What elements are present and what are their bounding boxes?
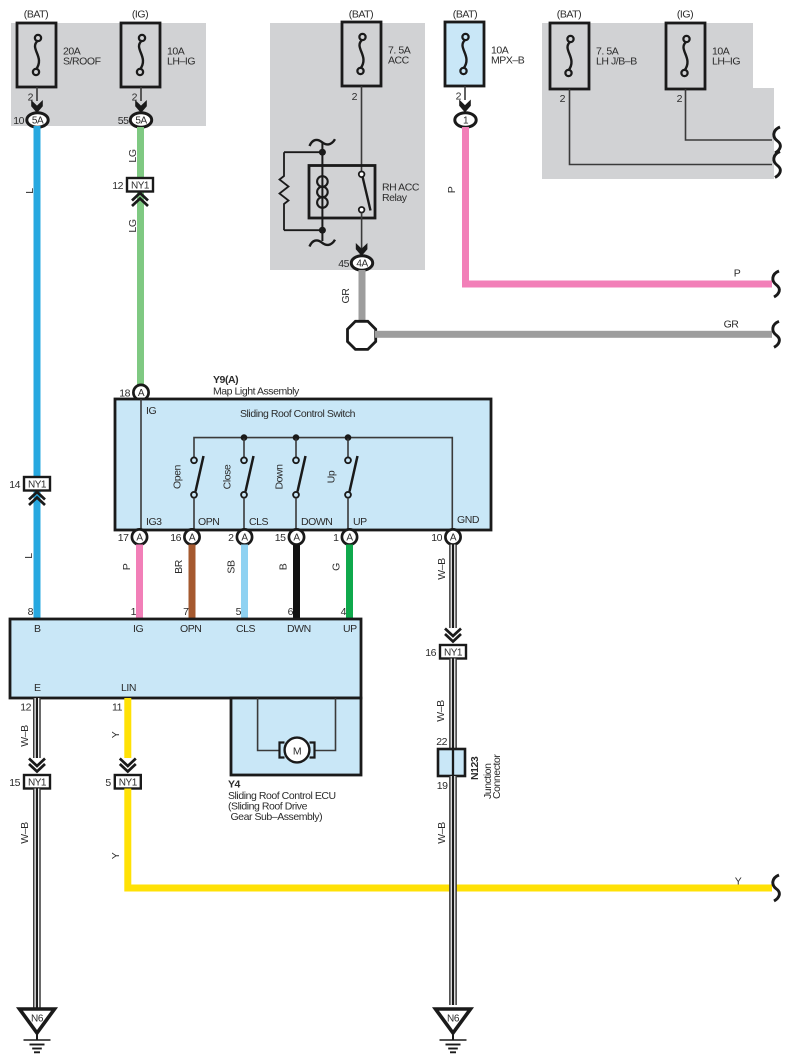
svg-text:55: 55 [118, 115, 129, 127]
svg-text:GR: GR [724, 319, 740, 331]
svg-text:(BAT): (BAT) [24, 9, 48, 21]
component Y9(A) Map Light Assembly title [213, 374, 300, 398]
wire LH J/B-B pin 2 [560, 89, 772, 165]
connector 14 NY1 [9, 477, 50, 505]
svg-text:Map Light Assembly: Map Light Assembly [213, 386, 300, 398]
wire Y yellow upper [110, 698, 131, 758]
svg-text:17: 17 [118, 532, 129, 544]
break P wire [773, 271, 780, 297]
svg-text:8: 8 [28, 606, 34, 618]
svg-text:IG3: IG3 [146, 516, 162, 528]
switch Down [274, 439, 306, 531]
svg-text:LH J/B–B: LH J/B–B [596, 56, 637, 68]
coil branch continuation top [310, 139, 336, 146]
svg-text:2: 2 [352, 91, 358, 103]
wire W-B mid right [435, 659, 457, 750]
svg-text:A: A [346, 533, 353, 544]
svg-text:Up: Up [326, 470, 338, 483]
svg-text:NY1: NY1 [131, 181, 150, 192]
junction dot bus up [345, 434, 352, 441]
connector 15 NY1 [9, 759, 50, 790]
switch Close [222, 439, 254, 531]
pin 10 A [431, 529, 460, 544]
terminal 55 5A [118, 113, 152, 127]
svg-text:DOWN: DOWN [301, 516, 332, 528]
break LH J/B-B wire [774, 152, 781, 178]
svg-text:DWN: DWN [287, 623, 311, 635]
svg-text:E: E [34, 682, 41, 694]
wire SB skyblue pin2 [226, 545, 249, 620]
svg-text:OPN: OPN [180, 623, 201, 635]
svg-text:W–B: W–B [436, 558, 448, 580]
wire coil bottom stub [321, 230, 323, 241]
break LH-IG wire [774, 127, 781, 153]
svg-text:GND: GND [457, 514, 480, 526]
svg-text:Y4: Y4 [228, 779, 241, 791]
svg-text:L: L [24, 188, 36, 194]
pin 16 A [170, 529, 199, 544]
svg-text:Y: Y [110, 852, 122, 859]
component Y9(A) box [115, 399, 491, 530]
svg-text:W–B: W–B [435, 700, 447, 722]
svg-text:Y: Y [110, 731, 122, 738]
svg-text:S/ROOF: S/ROOF [63, 56, 101, 68]
svg-text:15: 15 [9, 777, 20, 789]
svg-text:Y9(A): Y9(A) [213, 374, 238, 386]
junction octagon [348, 321, 376, 349]
ground N6 right [436, 1009, 471, 1052]
svg-text:10: 10 [13, 115, 24, 127]
svg-text:W–B: W–B [19, 725, 31, 747]
svg-text:(IG): (IG) [677, 9, 693, 21]
wire L blue lower [23, 491, 41, 620]
motor M [280, 738, 315, 763]
wire BR brown pin16 [173, 545, 196, 620]
svg-text:6: 6 [288, 606, 294, 618]
svg-text:4: 4 [341, 606, 347, 618]
relay RH ACC box [309, 166, 420, 219]
wire MPX-B pin 2 [456, 86, 471, 113]
wire W-B pin E lower [19, 789, 41, 1010]
svg-text:P: P [446, 186, 458, 193]
svg-text:16: 16 [170, 532, 181, 544]
svg-text:Connector: Connector [491, 754, 503, 799]
svg-text:W–B: W–B [436, 822, 448, 844]
svg-text:LG: LG [127, 219, 139, 232]
fuse 10A MPX-B [445, 9, 525, 87]
svg-text:5A: 5A [32, 116, 44, 127]
pin 1 A [333, 529, 357, 544]
motor circuit loop [258, 698, 336, 751]
svg-text:LIN: LIN [121, 682, 136, 694]
svg-text:16: 16 [425, 647, 436, 659]
relay coil [317, 152, 328, 230]
svg-text:NY1: NY1 [119, 778, 138, 789]
svg-text:(BAT): (BAT) [349, 9, 373, 21]
gray junction block right [542, 23, 774, 179]
svg-text:14: 14 [9, 479, 20, 491]
break GR wire [773, 321, 780, 347]
svg-text:1: 1 [333, 532, 339, 544]
svg-text:N6: N6 [31, 1014, 44, 1025]
svg-text:15: 15 [275, 532, 286, 544]
terminal 10 5A [13, 113, 48, 127]
wire fuse20A pin 2 [28, 87, 43, 113]
svg-text:2: 2 [677, 93, 683, 105]
switch Open [172, 439, 204, 531]
junction dot bus down [293, 434, 300, 441]
svg-text:4A: 4A [356, 259, 368, 270]
svg-text:W–B: W–B [19, 822, 31, 844]
svg-text:Sliding Roof Control Switch: Sliding Roof Control Switch [240, 408, 356, 420]
svg-text:BR: BR [173, 559, 185, 574]
svg-text:IG: IG [146, 405, 156, 417]
svg-text:1: 1 [463, 116, 469, 127]
svg-text:(BAT): (BAT) [557, 9, 581, 21]
svg-text:CLS: CLS [249, 516, 269, 528]
break Y wire [773, 875, 780, 901]
gray junction block left [11, 23, 206, 126]
connector 12 NY1 [112, 178, 153, 206]
pin 2 A [228, 529, 252, 544]
junction connector N123 [437, 749, 503, 799]
connector 16 NY1 [425, 629, 466, 660]
svg-text:GR: GR [340, 288, 352, 304]
svg-text:A: A [189, 533, 196, 544]
svg-text:A: A [138, 388, 145, 399]
svg-text:NY1: NY1 [444, 648, 463, 659]
svg-text:5: 5 [236, 606, 242, 618]
pin 15 A [275, 529, 304, 544]
junction dot bus close [241, 434, 248, 441]
svg-text:G: G [331, 563, 343, 571]
wire LH-IG pin 2 [677, 89, 772, 140]
svg-text:Close: Close [222, 464, 234, 489]
ground N6 left [20, 1009, 55, 1052]
svg-text:19: 19 [437, 780, 448, 792]
switch bus wire [194, 438, 452, 530]
wire W-B pin10 upper [436, 545, 457, 629]
svg-text:12: 12 [20, 702, 31, 714]
pin 18 A [119, 385, 148, 400]
svg-text:7: 7 [183, 606, 189, 618]
svg-text:Gear Sub–Assembly): Gear Sub–Assembly) [228, 811, 322, 823]
svg-text:2: 2 [560, 93, 566, 105]
svg-text:5A: 5A [135, 116, 147, 127]
wire GR gray horizontal [375, 319, 772, 338]
svg-text:NY1: NY1 [28, 778, 47, 789]
wire B black pin15 [278, 545, 301, 620]
wire P pink pin17 [121, 545, 143, 620]
svg-text:Relay: Relay [382, 192, 408, 204]
junction dot top coil [319, 149, 326, 156]
coil branch continuation bottom [310, 240, 336, 247]
wire LG green lower [127, 192, 144, 387]
svg-text:B: B [34, 623, 41, 635]
svg-text:1: 1 [131, 606, 137, 618]
wire Y yellow lower [110, 789, 772, 889]
wire fuse10A pin 2 [132, 87, 147, 113]
svg-text:45: 45 [338, 258, 349, 270]
svg-text:A: A [450, 533, 457, 544]
fuse 20A S/ROOF [17, 9, 101, 88]
wire LG green upper [127, 127, 144, 178]
fuse 10A LH-IG right [666, 9, 740, 90]
svg-text:5: 5 [105, 777, 111, 789]
fuse 7.5A ACC [342, 9, 411, 87]
wire ACC fuse to relay [352, 86, 362, 172]
wire GR gray vertical [340, 270, 366, 321]
switch box bottom labels [198, 514, 480, 528]
connector 5 NY1 [105, 759, 140, 790]
svg-text:11: 11 [112, 702, 123, 714]
fuse 10A LH-IG left [121, 9, 195, 88]
svg-text:UP: UP [343, 623, 357, 635]
svg-text:P: P [121, 563, 133, 570]
svg-text:N123: N123 [469, 756, 481, 780]
svg-text:2: 2 [456, 91, 462, 103]
fuse 7.5A LH J/B-B [550, 9, 637, 90]
component Y4 title [228, 779, 336, 824]
svg-text:Open: Open [172, 464, 184, 488]
svg-text:N6: N6 [447, 1014, 460, 1025]
svg-text:SB: SB [226, 560, 238, 574]
svg-text:P: P [734, 268, 741, 280]
svg-text:2: 2 [228, 532, 234, 544]
svg-text:(BAT): (BAT) [453, 9, 477, 21]
relay switch [359, 172, 371, 251]
svg-text:ACC: ACC [388, 55, 410, 67]
svg-text:12: 12 [112, 180, 123, 192]
wire W-B pin E upper [19, 698, 41, 758]
svg-text:MPX–B: MPX–B [491, 55, 525, 67]
svg-text:A: A [241, 533, 248, 544]
wire IG internal [141, 399, 162, 530]
junction dot bottom coil [319, 227, 326, 234]
svg-text:LH–IG: LH–IG [167, 56, 195, 68]
svg-text:NY1: NY1 [28, 480, 47, 491]
svg-text:Down: Down [274, 464, 286, 490]
terminal 45 4A [338, 243, 372, 270]
pin 17 A [118, 529, 147, 544]
svg-text:A: A [136, 533, 143, 544]
ECU top labels [34, 623, 357, 635]
svg-text:IG: IG [133, 623, 143, 635]
svg-text:(IG): (IG) [132, 9, 148, 21]
svg-text:LH–IG: LH–IG [712, 56, 740, 68]
svg-text:L: L [23, 553, 35, 559]
svg-text:Y: Y [735, 876, 742, 888]
gray junction block middle [270, 23, 425, 270]
wire G green pin1 [331, 545, 354, 620]
relay coil resistor [280, 152, 323, 230]
ECU bottom labels [34, 682, 136, 694]
wire coil top stub [321, 143, 323, 152]
svg-text:B: B [278, 563, 290, 570]
component ECU box L-shape [10, 619, 361, 775]
svg-text:10: 10 [431, 532, 442, 544]
svg-text:CLS: CLS [236, 623, 256, 635]
svg-text:22: 22 [436, 736, 447, 748]
switch Up [326, 439, 358, 531]
wire P pink [446, 127, 772, 284]
svg-text:OPN: OPN [198, 516, 219, 528]
svg-text:M: M [293, 746, 301, 758]
wire L blue upper [24, 126, 41, 477]
wire W-B lower right [436, 776, 457, 1005]
svg-text:LG: LG [127, 149, 139, 162]
svg-text:A: A [293, 533, 300, 544]
terminal 1 oval [455, 113, 476, 127]
svg-text:UP: UP [353, 516, 367, 528]
